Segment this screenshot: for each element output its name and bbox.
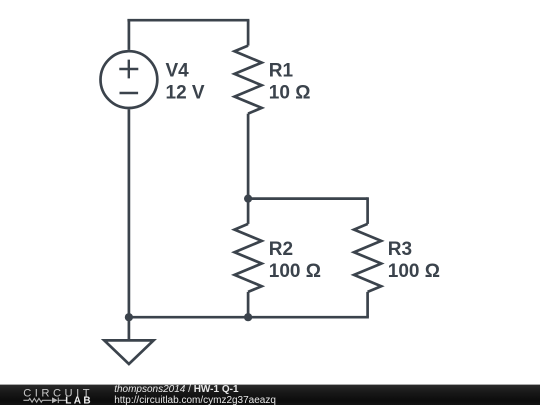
ground lead <box>128 317 131 340</box>
logo resistor-diode glyph <box>23 398 66 404</box>
wire top-left vertical (V4 top lead) <box>128 20 131 50</box>
svg-text:10 Ω: 10 Ω <box>269 82 311 103</box>
bottom-left junction dot <box>125 313 133 321</box>
wire R2 bottom lead <box>247 292 250 317</box>
svg-text:LAB: LAB <box>65 396 93 405</box>
bottom-mid junction dot <box>244 313 252 321</box>
resistor R3 <box>354 224 381 292</box>
wire R3 bottom lead <box>366 292 369 317</box>
wire mid horizontal (node A to R3 corner) <box>248 197 368 200</box>
resistor R1 <box>235 46 262 114</box>
wire R3 top lead <box>366 197 369 224</box>
wire top horizontal <box>127 19 249 22</box>
svg-text:100 Ω: 100 Ω <box>269 261 321 282</box>
node A junction dot <box>244 195 252 203</box>
svg-text:V4: V4 <box>166 61 190 82</box>
ground symbol <box>104 340 153 364</box>
svg-text:http://circuitlab.com/cymz2g37: http://circuitlab.com/cymz2g37aeazq <box>114 395 276 405</box>
svg-text:R1: R1 <box>269 61 294 82</box>
svg-text:R3: R3 <box>388 239 412 260</box>
wire bottom horizontal <box>129 316 369 319</box>
svg-text:12 V: 12 V <box>166 82 205 103</box>
V4 plus sign <box>119 60 138 79</box>
wire R2 top lead <box>247 199 250 224</box>
svg-text:thompsons2014 / HW-1 Q-1: thompsons2014 / HW-1 Q-1 <box>114 384 239 395</box>
wire R1 top lead <box>247 20 250 45</box>
voltage source V4 circle <box>100 51 157 108</box>
logo diode triangle <box>52 397 58 403</box>
wire R1 bottom lead <box>247 114 250 199</box>
wire V4 bottom lead <box>128 109 131 317</box>
V4 minus sign <box>120 92 139 94</box>
svg-text:100 Ω: 100 Ω <box>388 261 440 282</box>
svg-text:R2: R2 <box>269 239 293 260</box>
resistor R2 <box>235 224 262 292</box>
